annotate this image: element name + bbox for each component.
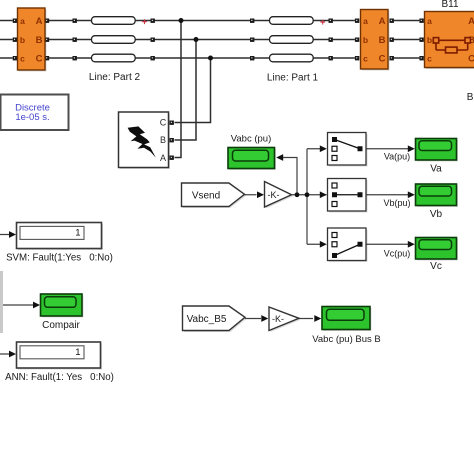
- svg-text:C: C: [468, 54, 474, 65]
- svg-text:C: C: [36, 54, 43, 65]
- svg-text:Compair: Compair: [42, 320, 80, 331]
- svg-text:A: A: [379, 16, 386, 27]
- svg-text:Vb(pu): Vb(pu): [383, 198, 410, 208]
- svg-text:-K-: -K-: [272, 314, 284, 324]
- svg-text:B: B: [379, 35, 386, 46]
- svg-text:Va(pu): Va(pu): [384, 152, 410, 162]
- svg-text:Line: Part 1: Line: Part 1: [267, 73, 319, 84]
- svg-text:B: B: [160, 135, 166, 145]
- svg-text:B11: B11: [441, 0, 458, 10]
- svg-text:b: b: [20, 35, 25, 45]
- svg-text:A: A: [36, 16, 43, 27]
- svg-text:-K-: -K-: [268, 190, 280, 200]
- svg-text:a: a: [363, 16, 368, 26]
- svg-text:b: b: [363, 35, 368, 45]
- svg-text:c: c: [363, 53, 368, 63]
- svg-text:Vabc (pu) Bus B: Vabc (pu) Bus B: [312, 334, 380, 345]
- svg-text:a: a: [427, 16, 432, 26]
- svg-text:Vc: Vc: [430, 261, 442, 272]
- svg-text:Vb: Vb: [430, 209, 443, 220]
- svg-text:Vc(pu): Vc(pu): [384, 249, 411, 259]
- svg-text:B: B: [36, 35, 43, 46]
- svg-text:Vabc (pu): Vabc (pu): [231, 134, 271, 145]
- svg-text:1e-05 s.: 1e-05 s.: [15, 112, 49, 123]
- svg-text:c: c: [20, 53, 25, 63]
- svg-text:Va: Va: [430, 164, 442, 175]
- svg-text:ANN: Fault(1: Yes 0:No): ANN: Fault(1: Yes 0:No): [5, 372, 114, 383]
- svg-text:SVM: Fault(1:Yes 0:No): SVM: Fault(1:Yes 0:No): [6, 252, 113, 263]
- svg-text:1: 1: [75, 347, 80, 358]
- svg-text:1: 1: [75, 227, 80, 238]
- svg-text:Vabc_B5: Vabc_B5: [187, 314, 227, 325]
- svg-text:A: A: [160, 153, 166, 163]
- svg-text:c: c: [427, 53, 432, 63]
- svg-text:Vsend: Vsend: [192, 190, 220, 201]
- svg-text:a: a: [20, 16, 25, 26]
- svg-text:C: C: [379, 54, 386, 65]
- svg-text:A: A: [468, 16, 474, 27]
- svg-text:Line: Part 2: Line: Part 2: [89, 72, 141, 83]
- svg-text:B5: B5: [467, 92, 474, 103]
- svg-text:b: b: [427, 35, 432, 45]
- svg-text:C: C: [160, 118, 167, 128]
